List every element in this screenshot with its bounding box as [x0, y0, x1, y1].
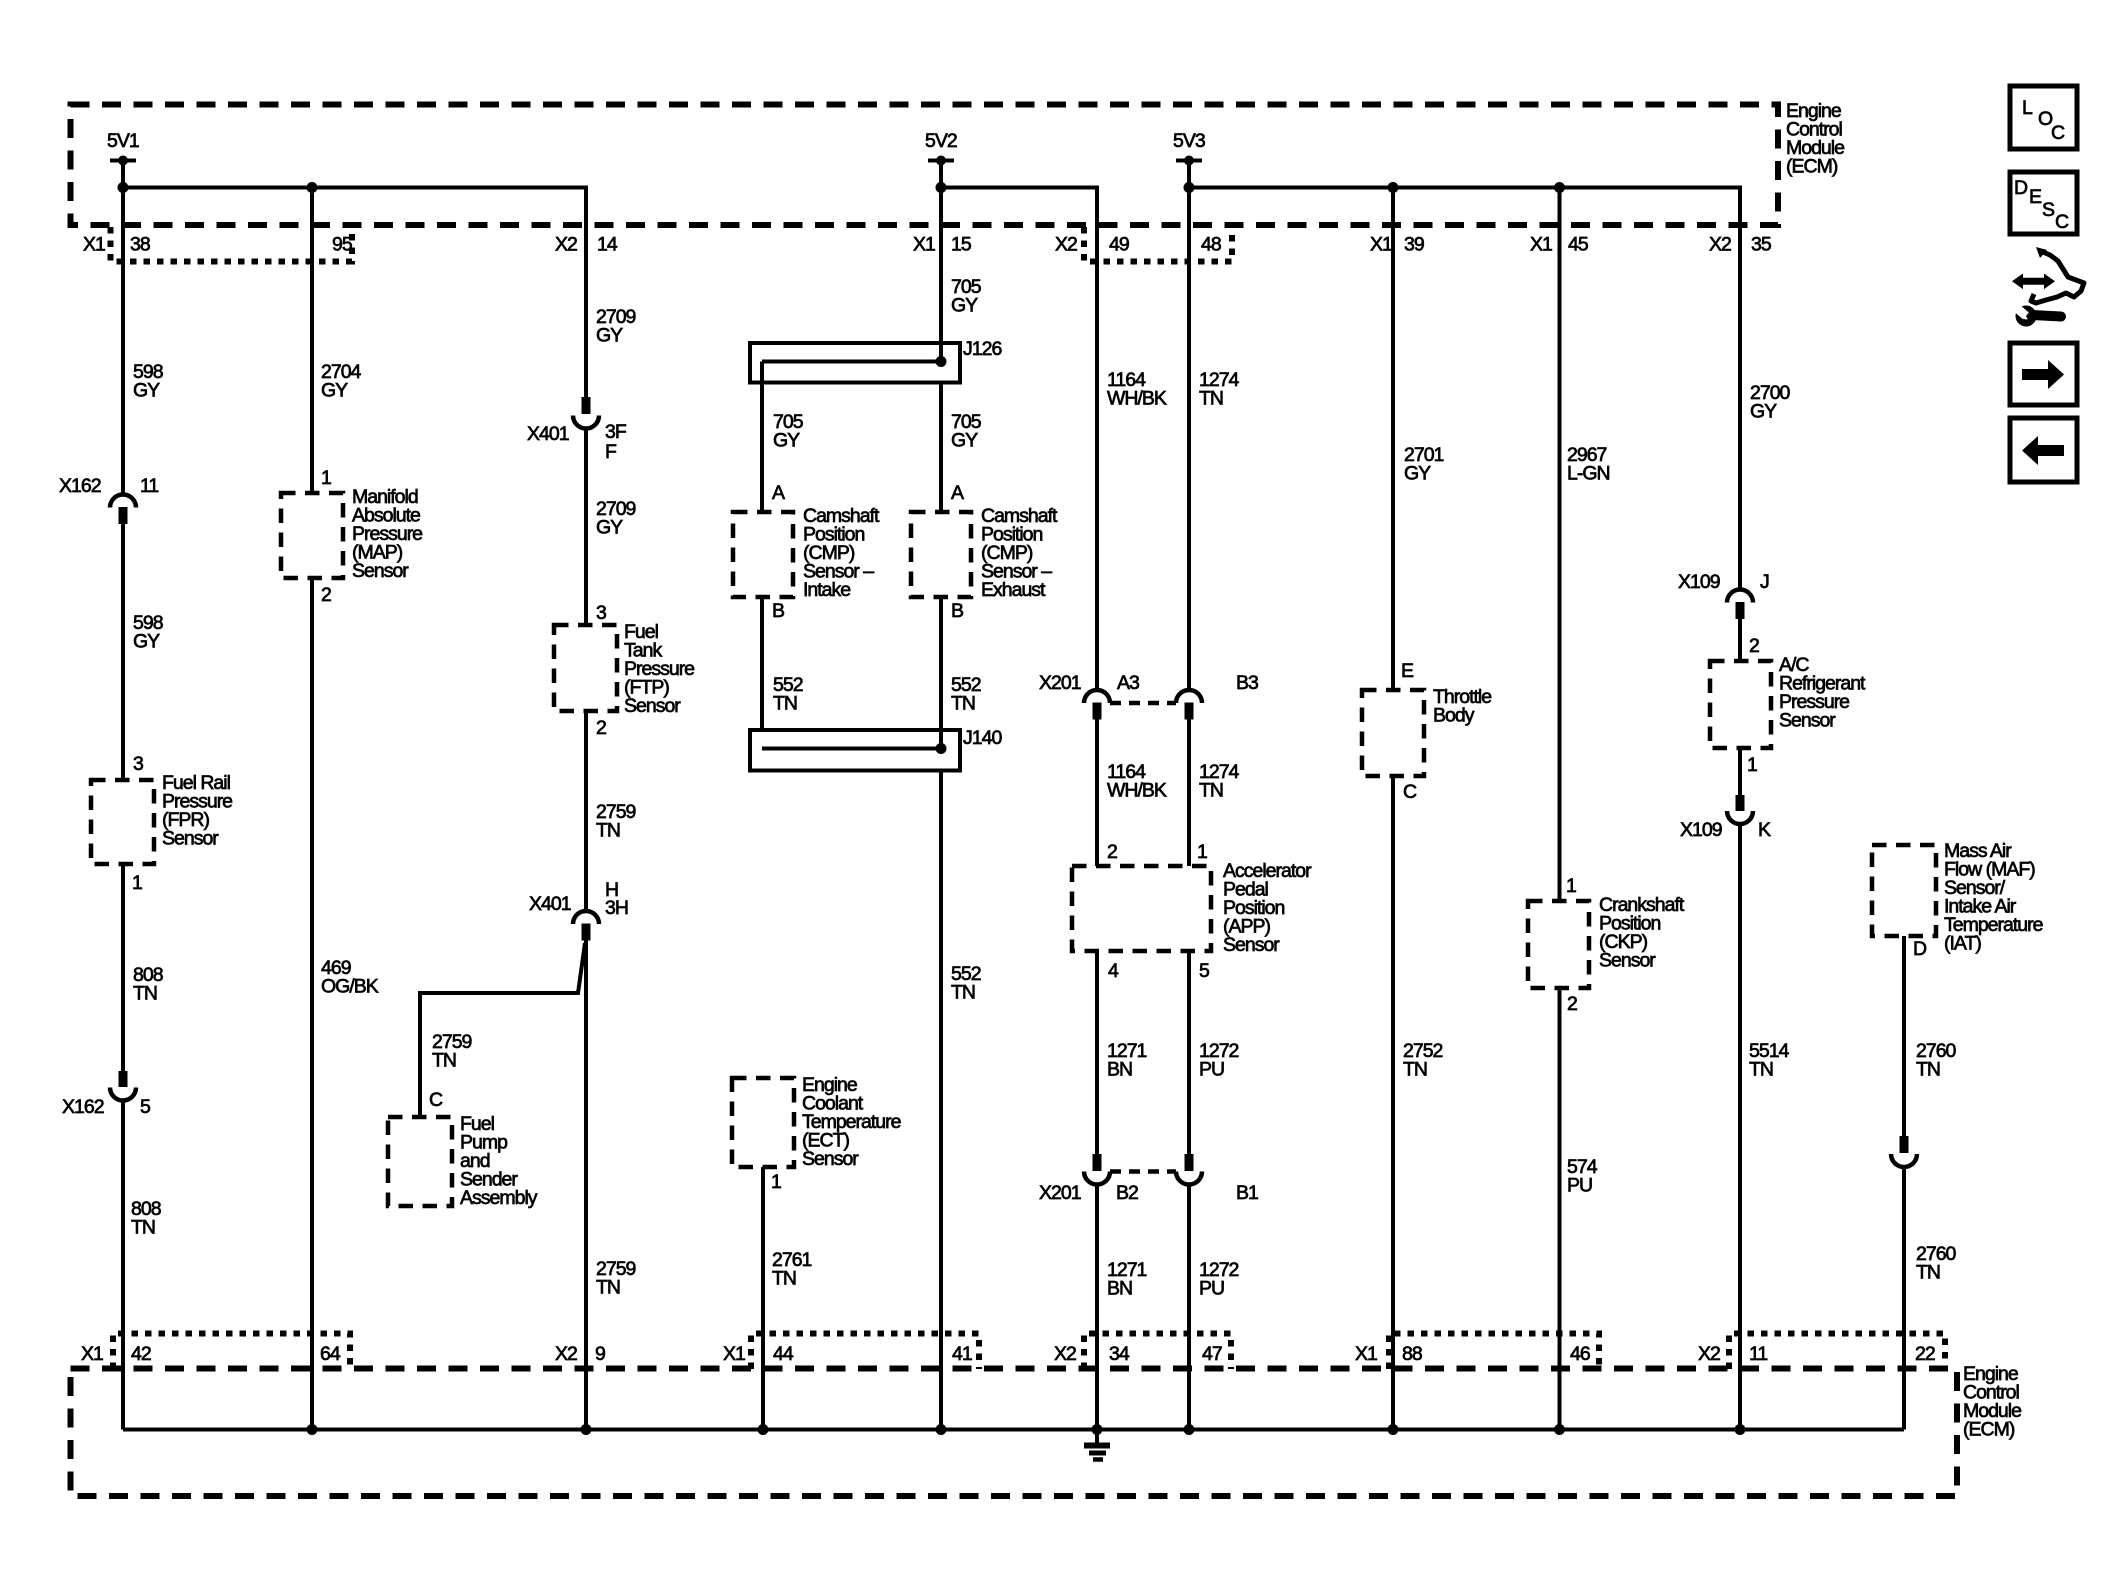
wire 1272 PU lower: [1187, 1185, 1191, 1430]
svg-text:TN: TN: [772, 1268, 796, 1290]
svg-text:X1: X1: [913, 234, 935, 256]
inline connector X201 B1: [1185, 1154, 1194, 1171]
ECM connector box pins 88-46: [1389, 1334, 1599, 1370]
sensor FPR box: [91, 780, 154, 864]
inline connector MAF harness: [1900, 1136, 1909, 1153]
wire 2761 TN: [761, 1167, 765, 1430]
svg-text:GY: GY: [951, 430, 978, 452]
svg-text:34: 34: [1109, 1343, 1130, 1365]
svg-text:X162: X162: [59, 475, 101, 497]
svg-text:1: 1: [1197, 841, 1207, 863]
svg-text:TN: TN: [1403, 1059, 1427, 1081]
wire 574 PU: [1558, 988, 1562, 1430]
svg-text:5: 5: [1199, 960, 1210, 982]
wire 5V3 bus: [1189, 188, 1740, 591]
svg-text:41: 41: [952, 1343, 972, 1365]
svg-text:GY: GY: [321, 380, 348, 402]
ECM bottom dashed box: [71, 1369, 1958, 1497]
wire 1274 TN lower: [1187, 720, 1191, 867]
wire 2760 TN lower: [1902, 1167, 1906, 1430]
svg-text:TN: TN: [133, 983, 157, 1005]
svg-text:X2: X2: [1055, 234, 1077, 256]
svg-text:5V3: 5V3: [1173, 130, 1205, 152]
ECM connector box pins 34-47: [1084, 1334, 1231, 1370]
svg-text:X1: X1: [723, 1343, 745, 1365]
svg-text:L: L: [2022, 97, 2033, 119]
inline connector X162 pin 5: [119, 1071, 128, 1087]
inline connector X109 K: [1736, 795, 1745, 811]
wire 2752 TN: [1391, 776, 1395, 1430]
svg-text:PU: PU: [1567, 1175, 1592, 1197]
icon forward arrow box: [2010, 343, 2077, 405]
icon jump wrench: [2031, 315, 2061, 317]
sensor MAF box: [1872, 845, 1936, 936]
svg-text:95: 95: [332, 234, 353, 256]
svg-text:TN: TN: [1749, 1059, 1773, 1081]
svg-text:Sensor: Sensor: [624, 695, 681, 717]
svg-text:X201: X201: [1039, 1182, 1081, 1204]
svg-text:9: 9: [595, 1343, 605, 1365]
svg-text:48: 48: [1201, 234, 1221, 256]
svg-text:GY: GY: [951, 295, 978, 317]
svg-text:15: 15: [951, 234, 972, 256]
inline connector X201 A3: [1084, 690, 1110, 703]
sensor APP box: [1072, 866, 1211, 951]
svg-text:X2: X2: [555, 1343, 577, 1365]
junction pin34 bus: [1092, 1424, 1103, 1435]
svg-text:1: 1: [1566, 875, 1576, 897]
svg-text:OG/BK: OG/BK: [321, 976, 379, 998]
splice J126 bus: [762, 360, 941, 364]
svg-text:5V1: 5V1: [107, 130, 139, 152]
wire 469 OG/BK: [310, 578, 314, 1430]
svg-text:GY: GY: [773, 430, 800, 452]
svg-text:WH/BK: WH/BK: [1107, 388, 1167, 410]
svg-text:3: 3: [596, 602, 606, 624]
icon back arrow: [2022, 436, 2038, 465]
splice J126 box: [750, 343, 960, 383]
svg-text:GY: GY: [133, 380, 160, 402]
wire 1274 TN from X1-48: [1187, 161, 1191, 691]
svg-text:GY: GY: [1750, 401, 1777, 423]
wire 5V2 bus: [941, 188, 1097, 691]
svg-text:J126: J126: [963, 338, 1001, 360]
svg-text:5V2: 5V2: [925, 130, 957, 152]
svg-text:C: C: [2051, 122, 2065, 144]
svg-text:14: 14: [597, 234, 618, 256]
svg-text:47: 47: [1202, 1343, 1222, 1365]
svg-text:L-GN: L-GN: [1567, 463, 1610, 485]
wire 1271 BN upper: [1095, 951, 1099, 1154]
svg-text:2: 2: [1567, 993, 1577, 1015]
sensor ECT box: [732, 1078, 794, 1167]
junction 5V1: [118, 182, 129, 193]
svg-text:TN: TN: [1199, 388, 1223, 410]
svg-text:46: 46: [1570, 1343, 1590, 1365]
svg-text:Body: Body: [1433, 705, 1475, 727]
power feed 5V2: [928, 159, 954, 163]
sensor AC box: [1710, 661, 1771, 748]
svg-text:B: B: [951, 600, 963, 622]
svg-text:X109: X109: [1678, 571, 1720, 593]
svg-text:A3: A3: [1117, 672, 1139, 694]
inline connector X201 B2: [1093, 1154, 1102, 1171]
power feed 5V3: [1176, 159, 1202, 163]
wire 598 GY lower: [121, 524, 125, 780]
svg-text:X2: X2: [1054, 1343, 1076, 1365]
icon jump double arrow: [2012, 274, 2055, 290]
sensor CMP exhaust box: [911, 512, 971, 597]
svg-text:(IAT): (IAT): [1944, 933, 1981, 955]
svg-text:X1: X1: [1370, 234, 1392, 256]
svg-text:TN: TN: [596, 1277, 620, 1299]
svg-text:X109: X109: [1680, 819, 1722, 841]
icon back arrow box: [2010, 418, 2077, 482]
icon LOC box: [2010, 86, 2077, 149]
svg-text:E: E: [2029, 186, 2042, 208]
svg-text:3F: 3F: [605, 421, 627, 443]
junction pin39: [1388, 182, 1399, 193]
svg-text:44: 44: [773, 1343, 794, 1365]
wire 1164 WH/BK lower: [1095, 720, 1099, 867]
wire 2759 TN branch to fuel pump: [420, 943, 585, 1117]
wire 598 GY from X1-38: [121, 161, 125, 496]
svg-text:TN: TN: [773, 693, 797, 715]
svg-text:Assembly: Assembly: [460, 1187, 538, 1209]
svg-text:22: 22: [1915, 1343, 1935, 1365]
svg-text:S: S: [2042, 199, 2055, 221]
connector X201 bottom mating line: [1110, 1169, 1176, 1174]
svg-text:X2: X2: [1698, 1343, 1720, 1365]
junction pin47 bus: [1184, 1424, 1195, 1435]
svg-text:2: 2: [321, 584, 331, 606]
inline connector X401 pin H: [573, 911, 599, 924]
svg-text:3: 3: [133, 753, 143, 775]
ECM connector box pins 38-95: [111, 227, 353, 262]
svg-text:BN: BN: [1107, 1059, 1132, 1081]
wire 2760 TN upper: [1902, 936, 1906, 1136]
icon forward arrow: [2022, 369, 2048, 380]
ground bus wire: [123, 1428, 1904, 1432]
svg-text:GY: GY: [596, 517, 623, 539]
svg-text:1: 1: [771, 1171, 781, 1193]
svg-text:A: A: [772, 482, 785, 504]
svg-text:1: 1: [1747, 754, 1757, 776]
wire 705 GY left: [760, 362, 764, 513]
junction pin95: [307, 182, 318, 193]
wire to AC sensor: [1738, 619, 1742, 661]
svg-text:X1: X1: [81, 1343, 103, 1365]
svg-text:39: 39: [1404, 234, 1424, 256]
svg-text:TN: TN: [596, 820, 620, 842]
svg-text:49: 49: [1109, 234, 1129, 256]
svg-text:Sensor: Sensor: [1599, 950, 1656, 972]
svg-text:3H: 3H: [605, 897, 628, 919]
sensor MAP box: [281, 493, 343, 578]
component fuel pump box: [388, 1117, 452, 1206]
svg-text:45: 45: [1568, 234, 1589, 256]
svg-text:88: 88: [1402, 1343, 1422, 1365]
wire 2709 GY lower: [584, 429, 588, 626]
inline connector X201 B3: [1176, 690, 1202, 703]
ECM connector box pins 49-48: [1084, 227, 1232, 262]
junction pin46 bus: [1554, 1424, 1565, 1435]
wire 552 TN left: [760, 597, 764, 730]
svg-text:X1: X1: [1530, 234, 1552, 256]
svg-text:2: 2: [1749, 635, 1759, 657]
wire 2701 GY: [1391, 188, 1395, 691]
svg-text:B2: B2: [1116, 1182, 1138, 1204]
svg-text:TN: TN: [1916, 1262, 1940, 1284]
svg-text:X201: X201: [1039, 672, 1081, 694]
wire 808 TN upper: [121, 864, 125, 1071]
wire 705 GY right: [939, 383, 943, 513]
inline connector X109 J: [1727, 590, 1753, 603]
svg-text:J: J: [1760, 571, 1769, 593]
svg-text:(ECM): (ECM): [1963, 1419, 2015, 1441]
svg-text:B: B: [772, 600, 784, 622]
wire 1272 PU upper: [1187, 951, 1191, 1154]
wire 5514 TN: [1738, 824, 1742, 1430]
svg-text:B3: B3: [1236, 672, 1258, 694]
wire 1271 BN lower: [1095, 1185, 1099, 1430]
svg-text:Sensor: Sensor: [802, 1148, 859, 1170]
wire 2704 GY: [310, 188, 314, 494]
svg-text:TN: TN: [432, 1050, 456, 1072]
junction 5V2: [936, 182, 947, 193]
svg-text:TN: TN: [1199, 780, 1223, 802]
junction pin45: [1554, 182, 1565, 193]
svg-text:X1: X1: [83, 234, 105, 256]
junction pin11 bus: [1735, 1424, 1746, 1435]
svg-text:PU: PU: [1199, 1059, 1224, 1081]
junction pin88 bus: [1388, 1424, 1399, 1435]
svg-text:X162: X162: [62, 1096, 104, 1118]
icon jump loop: [2031, 252, 2084, 303]
svg-text:2: 2: [596, 717, 606, 739]
sensor FTP box: [554, 625, 617, 711]
svg-text:BN: BN: [1107, 1278, 1132, 1300]
ECM connector box pins 11-22: [1729, 1334, 1945, 1370]
svg-text:E: E: [1401, 660, 1414, 682]
wire 808 TN lower: [121, 1101, 125, 1430]
junction J140: [936, 743, 947, 754]
power feed 5V1: [110, 159, 136, 163]
junction pin9 bus: [581, 1424, 592, 1435]
svg-text:TN: TN: [951, 693, 975, 715]
svg-text:GY: GY: [596, 325, 623, 347]
svg-text:WH/BK: WH/BK: [1107, 780, 1167, 802]
svg-text:5: 5: [140, 1096, 151, 1118]
svg-text:X1: X1: [1355, 1343, 1377, 1365]
wire 2759 TN to X2-9: [584, 941, 588, 1430]
junction pin64 bus: [307, 1424, 318, 1435]
svg-text:64: 64: [320, 1343, 341, 1365]
ECM connector box pins 42-64: [113, 1334, 350, 1370]
inline connector X162 pin 11: [110, 495, 136, 508]
svg-text:Exhaust: Exhaust: [981, 579, 1046, 601]
wire 5V1 bus: [123, 188, 586, 398]
wire from AC sensor: [1738, 748, 1742, 795]
svg-text:2: 2: [1107, 841, 1117, 863]
svg-text:X2: X2: [555, 234, 577, 256]
svg-text:C: C: [1403, 781, 1417, 803]
component throttle body box: [1362, 690, 1424, 776]
icon DESC box: [2010, 172, 2077, 234]
svg-text:Sensor: Sensor: [1223, 934, 1280, 956]
svg-text:Sensor: Sensor: [352, 560, 409, 582]
junction J126: [936, 356, 947, 367]
wire 5V2 into J126: [939, 161, 943, 362]
svg-text:TN: TN: [131, 1217, 155, 1239]
svg-text:D: D: [2014, 177, 2028, 199]
svg-text:K: K: [1758, 819, 1771, 841]
svg-text:1: 1: [321, 467, 331, 489]
ECM connector box pins 44-41: [751, 1334, 979, 1370]
svg-text:Sensor: Sensor: [1779, 710, 1836, 732]
wire 2967 L-GN: [1558, 188, 1562, 902]
svg-text:11: 11: [1749, 1343, 1767, 1365]
wire 2759 TN upper: [584, 711, 588, 911]
svg-text:TN: TN: [1916, 1059, 1940, 1081]
wire 552 TN right: [939, 597, 943, 749]
svg-text:GY: GY: [1404, 463, 1431, 485]
svg-text:Intake: Intake: [803, 579, 850, 601]
svg-text:B1: B1: [1236, 1182, 1258, 1204]
svg-text:35: 35: [1751, 234, 1772, 256]
svg-text:(ECM): (ECM): [1786, 156, 1838, 178]
splice J140 box: [750, 730, 960, 771]
svg-text:42: 42: [131, 1343, 151, 1365]
svg-text:D: D: [1913, 938, 1927, 960]
junction pin41 bus: [936, 1424, 947, 1435]
splice J140 bus: [762, 747, 941, 751]
svg-text:PU: PU: [1199, 1278, 1224, 1300]
sensor CKP box: [1528, 901, 1589, 988]
wire 552 TN to X1-41: [939, 771, 943, 1430]
inline connector X401 pin 3F: [582, 397, 591, 414]
svg-text:A: A: [951, 482, 964, 504]
svg-text:J140: J140: [963, 727, 1002, 749]
sensor CMP intake box: [733, 512, 793, 597]
svg-text:Sensor: Sensor: [162, 828, 219, 850]
svg-text:F: F: [605, 441, 617, 463]
svg-text:C: C: [429, 1089, 443, 1111]
ECM top dashed box: [71, 105, 1779, 226]
ground symbol: [1095, 1430, 1099, 1444]
svg-text:38: 38: [130, 234, 150, 256]
svg-text:X401: X401: [529, 893, 571, 915]
connector X201 top mating line: [1110, 701, 1176, 706]
svg-text:4: 4: [1108, 960, 1119, 982]
svg-text:X401: X401: [527, 423, 569, 445]
svg-text:C: C: [2055, 211, 2069, 233]
junction 5V3: [1184, 182, 1195, 193]
svg-text:11: 11: [140, 475, 158, 497]
svg-text:TN: TN: [951, 982, 975, 1004]
svg-text:1: 1: [132, 872, 142, 894]
junction pin44 bus: [758, 1424, 769, 1435]
svg-text:GY: GY: [133, 631, 160, 653]
svg-text:X2: X2: [1709, 234, 1731, 256]
